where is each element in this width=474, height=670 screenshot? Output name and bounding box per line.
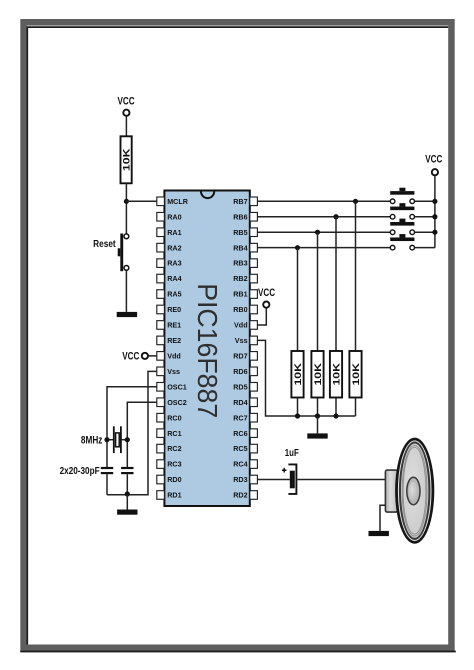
svg-text:RC6: RC6 [233,429,247,438]
resistor R5 10K (RB7 pull-down) [349,351,362,398]
wire junction to ground [126,495,128,510]
svg-text:VCC: VCC [122,350,139,362]
IC U1 right pin RC4 [233,460,257,469]
wire VCC to Vdd pin [148,355,157,357]
resistor R2 10K (RB4 pull-down) [291,351,304,398]
svg-text:RB7: RB7 [233,197,247,206]
svg-text:RC3: RC3 [167,460,181,469]
wire RB4 column down to resistor [297,248,299,351]
svg-text:RB0: RB0 [233,305,247,314]
svg-text:RD6: RD6 [233,367,247,376]
wire OSC1 pin to crystal line [107,387,157,467]
svg-text:VCC: VCC [258,287,275,299]
crystal X1 8MHz [81,426,127,453]
IC U1 left pin RC0 [157,413,182,422]
wire RB6 pin to S3 [257,216,390,218]
svg-text:RB2: RB2 [233,274,247,283]
wire S5 to VCC bus [415,247,435,249]
node MCLR junction [124,199,129,204]
svg-text:RD3: RD3 [233,475,247,484]
IC U1 right pin Vss [235,336,258,345]
IC U1 right pin RC6 [233,429,257,438]
IC U1 right pin RD5 [233,382,257,391]
wire resistor R3 to rail [317,398,319,417]
svg-text:10K: 10K [331,363,342,386]
svg-text:RC4: RC4 [233,460,247,469]
svg-text:Vss: Vss [167,367,180,376]
svg-text:PIC16F887: PIC16F887 [192,283,223,418]
IC U1 PIC16F887 body [164,191,249,507]
svg-text:RD4: RD4 [233,398,247,407]
node RB4 to resistor column [295,245,300,250]
svg-text:Vdd: Vdd [167,351,181,360]
wire RB5 column down to resistor [317,232,319,351]
IC U1 right pin RB2 [233,274,257,283]
svg-text:10K: 10K [351,363,362,386]
svg-text:RA4: RA4 [167,274,181,283]
IC U1 right pin RD7 [233,351,257,360]
wire resistor R5 to rail [355,398,357,417]
wire speaker to ground [380,505,385,531]
IC U1 left pin RA3 [157,259,182,268]
power VCC (left, to Vdd) [122,350,148,362]
svg-text:RC1: RC1 [167,429,181,438]
speaker LS1 [385,438,434,544]
wire resistor R2 to rail [297,398,299,417]
IC U1 left pin RA0 [157,212,182,221]
IC U1 right pin RD6 [233,367,257,376]
IC U1 right pin RB7 [233,197,257,206]
IC U1 right pin RB5 [233,228,257,237]
pushbutton S3 [390,203,414,219]
svg-text:Vdd: Vdd [234,321,248,330]
IC U1 left pin RA4 [157,274,182,283]
svg-text:RB4: RB4 [233,243,247,252]
svg-text:RA0: RA0 [167,212,181,221]
ground (speaker) [369,531,389,536]
svg-text:RA5: RA5 [167,290,181,299]
svg-text:VCC: VCC [117,95,134,107]
node rail R5 [295,413,300,418]
IC U1 left pin RE1 [157,321,181,330]
ground (below reset) [117,312,137,317]
svg-text:RD0: RD0 [167,475,181,484]
svg-text:RE0: RE0 [167,305,181,314]
wire S4 to VCC bus [415,231,435,233]
wire RD3 pin to C3 [257,479,289,481]
capacitor C3 1uF electrolytic [282,447,299,494]
IC U1 right pin RB0 [233,305,257,314]
IC U1 left pin RA2 [157,243,182,252]
IC U1 left pin Vss [157,367,180,376]
svg-text:RC0: RC0 [167,413,181,422]
node VCC bus junction [432,214,437,219]
wire VCC to right Vdd pin [257,308,266,325]
power VCC (top left) [117,95,134,115]
svg-text:RC5: RC5 [233,444,247,453]
svg-text:RD5: RD5 [233,382,247,391]
wire VCC bus down [434,176,436,248]
IC U1 left pin RC2 [157,444,182,453]
svg-text:RE2: RE2 [167,336,181,345]
IC U1 right pin RC5 [233,444,257,453]
svg-text:10K: 10K [313,363,324,386]
pushbutton S4 [390,219,414,235]
resistor R1 10K (MCLR pull-up) [121,136,133,183]
node rail R3 [333,413,338,418]
node crystal left [104,437,109,442]
IC U1 left pin OSC1 [157,382,187,391]
svg-text:Vss: Vss [235,336,248,345]
wire OSC2 pin to crystal line [127,402,157,467]
svg-text:VCC: VCC [425,154,442,166]
IC U1 left pin OSC2 [157,398,187,407]
power VCC (right, to Vdd) [258,287,275,308]
node osc rail junction [125,491,130,496]
IC U1 left pin RE2 [157,336,181,345]
IC U1 left pin RD1 [157,491,182,500]
IC U1 left pin Vdd [157,351,181,360]
IC U1 right pin RD4 [233,398,257,407]
IC U1 left pin RA5 [157,290,182,299]
svg-text:RE1: RE1 [167,321,181,330]
svg-text:RB6: RB6 [233,212,247,221]
svg-text:MCLR: MCLR [167,197,189,206]
resistor R3 10K (RB5 pull-down) [311,351,324,398]
svg-text:RB1: RB1 [233,290,247,299]
svg-text:RA2: RA2 [167,243,181,252]
svg-text:RC7: RC7 [233,413,247,422]
wire RB7 column down to resistor [355,201,357,351]
svg-text:OSC1: OSC1 [167,382,187,391]
capacitors C1 C2 2x20-30pF [60,465,134,477]
node rail R4 / ground stem [315,413,320,418]
wire R1 to MCLR node [125,183,127,234]
IC U1 left pin RE0 [157,305,181,314]
svg-text:1uF: 1uF [285,447,299,459]
wire rail to ground [317,416,319,433]
node RB7 to resistor column [353,199,358,204]
pushbutton S5 [390,234,414,250]
svg-text:RD2: RD2 [233,491,247,500]
svg-text:10K: 10K [293,363,304,386]
wire Vss pin down to osc rail [107,371,157,494]
node crystal right [125,437,130,442]
svg-text:RA1: RA1 [167,228,181,237]
wire VCC to R1 [125,116,127,136]
wire S3 to VCC bus [415,216,435,218]
wire RB5 pin to S4 [257,231,390,233]
node RB5 to resistor column [315,230,320,235]
node VCC bus junction [432,230,437,235]
power VCC (top right) [425,154,442,176]
resistor R4 10K (RB6 pull-down) [330,351,343,398]
svg-text:RD7: RD7 [233,351,247,360]
wire right Vss pin to pulldown rail [257,340,355,416]
wire resistor R4 to rail [335,398,337,417]
wire node to MCLR pin [126,200,157,202]
svg-text:RB5: RB5 [233,228,247,237]
wire C3 to speaker [297,479,385,481]
wire S2 to VCC bus [415,200,435,202]
svg-text:2x20-30pF: 2x20-30pF [60,465,100,477]
svg-text:8MHz: 8MHz [81,435,103,447]
wire caps to osc ground rail [107,474,127,495]
svg-text:RC2: RC2 [167,444,181,453]
IC U1 left pin RC3 [157,460,182,469]
ground (pull-down rail) [307,433,327,438]
IC U1 left pin RC1 [157,429,182,438]
IC U1 left pin MCLR [157,197,189,206]
IC U1 right pin Vdd [234,321,257,330]
node RB6 to resistor column [333,214,338,219]
IC U1 left pin RA1 [157,228,182,237]
svg-text:10K: 10K [122,148,133,171]
svg-text:OSC2: OSC2 [167,398,187,407]
IC U1 right pin RD3 [233,475,257,484]
wire S1 to ground [125,270,127,312]
IC U1 right pin RB6 [233,212,257,221]
svg-text:RB3: RB3 [233,259,247,268]
node VCC bus junction [432,199,437,204]
IC U1 right pin RB3 [233,259,257,268]
IC U1 left pin RD0 [157,475,182,484]
pushbutton S1 Reset [93,234,129,272]
IC U1 right pin RD2 [233,491,257,500]
svg-text:Reset: Reset [93,239,116,250]
svg-text:RA3: RA3 [167,259,181,268]
wire RB7 pin to S2 [257,200,390,202]
svg-text:RD1: RD1 [167,491,181,500]
IC U1 right pin RC7 [233,413,257,422]
IC U1 right pin RB1 [233,290,257,299]
ground (oscillator) [117,510,137,515]
wire RB6 column down to resistor [335,217,337,351]
IC U1 right pin RB4 [233,243,257,252]
wire RB4 pin to S5 [257,247,390,249]
pushbutton S2 [390,188,414,204]
